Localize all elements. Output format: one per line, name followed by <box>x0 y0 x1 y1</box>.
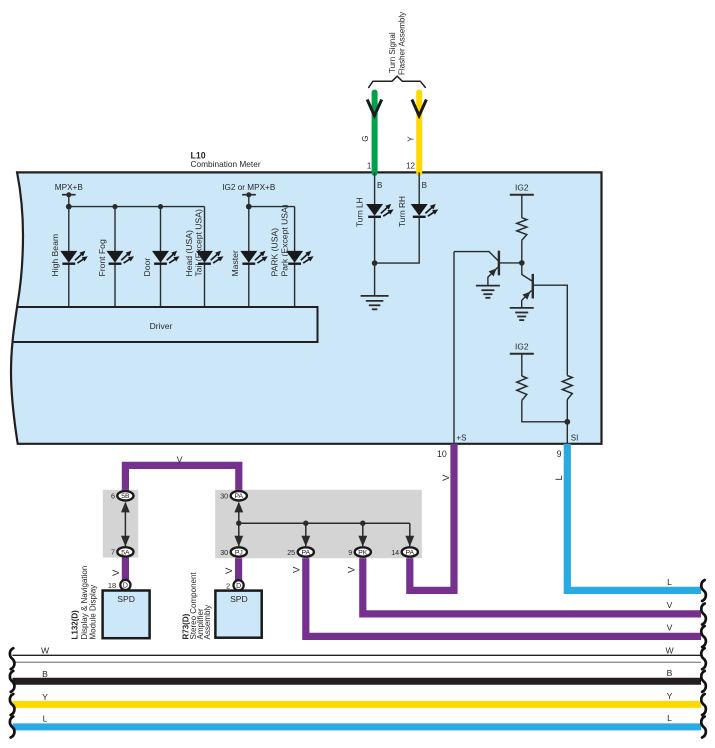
resistor R3 <box>562 376 572 400</box>
arrow drop to connector x=409.8 <box>409 523 411 546</box>
wire Y (yellow) <box>13 701 702 708</box>
wire break mark left L <box>10 717 15 738</box>
svg-text:Module Display: Module Display <box>88 585 97 640</box>
svg-text:PARK (USA): PARK (USA) <box>270 228 280 277</box>
junction dot turn <box>372 260 378 266</box>
svg-text:Assembly: Assembly <box>203 605 212 640</box>
LED D6 Park <box>286 251 314 264</box>
svg-text:IG2: IG2 <box>515 182 529 192</box>
wire LED branch x=68.8 <box>68 207 70 252</box>
wire R2 to SI node <box>522 401 568 422</box>
svg-text:7: 7 <box>111 548 115 557</box>
junction dot MPX+B bus <box>66 204 72 210</box>
wire +S vertical <box>453 252 455 444</box>
LED D2 Front Fog <box>107 251 135 264</box>
wire Y yellow from flasher <box>416 93 422 174</box>
wire turn RH <box>418 172 420 204</box>
wire break mark right L1 <box>701 580 706 601</box>
svg-text:Y: Y <box>406 136 415 142</box>
svg-text:12: 12 <box>406 162 415 171</box>
svg-text:Turn RH: Turn RH <box>397 196 407 227</box>
ground (Q1) <box>476 285 500 287</box>
svg-text:30: 30 <box>220 492 228 501</box>
connector PK pin9 <box>355 547 371 556</box>
wire break mark right V1 <box>701 604 706 625</box>
wire B (black) <box>13 678 702 685</box>
svg-text:Master: Master <box>230 250 240 276</box>
svg-text:1: 1 <box>367 162 372 171</box>
svg-text:18: 18 <box>108 581 116 590</box>
LED D5 Master <box>240 251 267 264</box>
SPD box (display module) <box>103 591 150 639</box>
wire break mark left B <box>10 671 15 692</box>
svg-text:Y: Y <box>42 692 48 702</box>
bus wire IG2 or MPX+B <box>249 206 295 208</box>
SPD box (amplifier) <box>215 591 261 638</box>
svg-text:L: L <box>667 577 672 587</box>
wire W (white) <box>13 654 702 656</box>
svg-text:Park (Except USA): Park (Except USA) <box>279 204 289 276</box>
svg-text:2: 2 <box>226 581 230 590</box>
connector PJ pin30 <box>231 547 247 556</box>
wire L (blue) <box>13 723 702 730</box>
svg-text:SI: SI <box>571 433 579 442</box>
wire V purple: 5B to PA30 link <box>125 465 238 494</box>
svg-text:+S: +S <box>456 433 466 442</box>
svg-text:25: 25 <box>287 548 295 557</box>
resistor R2 <box>517 376 527 401</box>
arrow link PA30-PJ <box>238 503 240 546</box>
resistor R1 <box>517 218 527 241</box>
svg-text:PK: PK <box>358 549 368 556</box>
ground (Q2) <box>510 307 534 309</box>
svg-text:Driver: Driver <box>150 321 173 331</box>
svg-text:V: V <box>292 566 303 573</box>
svg-text:PA: PA <box>302 549 311 556</box>
wire turn LH lower <box>374 217 376 296</box>
LED D1 High Beam <box>60 251 88 264</box>
wire turn LH <box>374 172 376 204</box>
svg-text:IG2 or MPX+B: IG2 or MPX+B <box>222 183 276 192</box>
wire R1 to node <box>521 240 523 263</box>
svg-text:9: 9 <box>557 449 562 459</box>
svg-text:L: L <box>554 475 565 481</box>
transistor Q2 <box>522 263 568 376</box>
svg-text:Door: Door <box>142 258 152 277</box>
svg-text:PJ: PJ <box>235 549 243 556</box>
wire IG2 to R2 <box>521 354 523 376</box>
LED Turn LH <box>366 204 394 217</box>
LED D3 Door <box>152 251 180 264</box>
junction dot <box>360 521 365 526</box>
svg-text:Flasher Assembly: Flasher Assembly <box>398 12 407 75</box>
svg-text:9: 9 <box>348 548 352 557</box>
wire break mark left W <box>10 648 15 669</box>
wire LED branch x=294.6 <box>294 207 296 252</box>
arrow link 5B-5A <box>124 503 126 546</box>
connector PA pin25 <box>298 547 314 556</box>
svg-text:SPD: SPD <box>230 594 248 604</box>
svg-text:Y: Y <box>667 691 673 701</box>
LED Turn RH <box>411 204 439 217</box>
svg-text:PA: PA <box>235 493 244 500</box>
svg-text:V: V <box>224 567 235 574</box>
bus wire MPX+B <box>69 206 205 208</box>
svg-text:V: V <box>347 566 358 573</box>
connector D pin18 <box>120 580 130 590</box>
svg-text:PA: PA <box>406 549 415 556</box>
junction block (gray) small <box>103 490 138 558</box>
wire V purple PA14 to +S pin 10 <box>410 444 454 591</box>
svg-text:V: V <box>667 600 673 610</box>
svg-text:MPX+B: MPX+B <box>55 183 84 192</box>
svg-text:V: V <box>441 474 452 481</box>
svg-text:V: V <box>177 454 183 464</box>
svg-text:V: V <box>111 569 122 576</box>
arrow drop to connector x=362.8 <box>362 523 364 546</box>
svg-text:Head (USA): Head (USA) <box>184 230 194 276</box>
wire break mark left Y <box>10 694 15 715</box>
svg-text:10: 10 <box>437 449 447 459</box>
connector arrow on green wire <box>367 100 382 116</box>
wire LED branch x=160.5 <box>160 207 162 252</box>
junction node SI <box>564 419 570 425</box>
wire purple into 5B <box>122 490 129 494</box>
wire V purple stub 5A to D <box>122 553 129 582</box>
wire break mark right L <box>701 717 706 738</box>
wire LED branch x=115.0 <box>114 207 116 252</box>
svg-text:W: W <box>665 646 674 656</box>
svg-text:L: L <box>43 714 48 724</box>
wire V purple stub PJ to D <box>235 553 242 583</box>
svg-text:B: B <box>377 181 382 190</box>
wire break mark right V2 <box>701 626 706 647</box>
brace for flasher assembly <box>369 76 426 87</box>
svg-text:30: 30 <box>220 548 228 557</box>
svg-text:5B: 5B <box>121 493 130 500</box>
svg-text:B: B <box>42 669 48 679</box>
svg-text:5A: 5A <box>121 549 130 556</box>
svg-text:6: 6 <box>111 492 115 501</box>
svg-text:SPD: SPD <box>117 594 135 604</box>
svg-text:14: 14 <box>391 548 399 557</box>
connector 5B pin6 <box>117 491 133 500</box>
svg-text:D: D <box>123 583 128 590</box>
wire V purple PA25 to right edge <box>306 556 701 636</box>
connector PA pin30 <box>231 491 247 500</box>
connector D pin2 <box>234 580 244 590</box>
transistor Q1 <box>454 251 522 286</box>
wire purple into PA30 <box>235 490 242 494</box>
svg-text:Front Fog: Front Fog <box>97 239 107 276</box>
combination meter L10 box <box>11 172 602 443</box>
junction node Q1 base <box>519 260 525 266</box>
svg-text:B: B <box>667 668 673 678</box>
wire V purple PK to right edge <box>363 556 701 614</box>
ground (turn LEDs) <box>361 295 389 297</box>
junction dot <box>112 204 117 209</box>
svg-text:Turn LH: Turn LH <box>354 197 364 227</box>
svg-text:W: W <box>41 646 50 656</box>
wire turn RH lower with elbow <box>375 217 420 263</box>
svg-text:Tail (Except USA): Tail (Except USA) <box>194 209 204 276</box>
wire R3 to SI node <box>566 400 568 422</box>
wire L cyan SI to right edge <box>567 444 701 591</box>
arrow drop to connector x=305.8 <box>305 523 307 546</box>
connector PA pin14 <box>402 547 418 556</box>
wire LED branch x=248.8 <box>248 207 250 252</box>
junction block (gray) large <box>215 490 422 558</box>
svg-text:L132(D): L132(D) <box>71 610 80 640</box>
svg-text:IG2: IG2 <box>515 341 529 351</box>
svg-text:L: L <box>667 713 672 723</box>
LED D4 Head/Tail <box>196 251 224 264</box>
connector arrow on yellow wire <box>412 100 427 116</box>
svg-text:Turn Signal: Turn Signal <box>388 32 397 73</box>
wire break mark right Y <box>701 694 706 715</box>
svg-text:High Beam: High Beam <box>50 234 60 277</box>
junction dot <box>158 204 163 209</box>
wire LED branch x=204.5 <box>204 207 206 252</box>
junction dot <box>236 521 241 526</box>
wire break mark right W <box>701 648 706 669</box>
svg-text:D: D <box>236 583 241 590</box>
connector 5A pin7 <box>117 547 133 556</box>
driver box <box>16 306 317 308</box>
wire break mark right B <box>701 671 706 692</box>
svg-text:B: B <box>422 181 427 190</box>
junction dot IG2 bus <box>246 204 252 210</box>
wire SI to pin <box>566 422 568 444</box>
svg-text:V: V <box>667 622 673 632</box>
wire G green from flasher <box>372 93 378 174</box>
svg-text:G: G <box>361 136 370 142</box>
junction dot <box>303 521 308 526</box>
wire inner distribution <box>239 522 410 524</box>
wire IG2 to resistor <box>521 195 523 218</box>
svg-text:Combination Meter: Combination Meter <box>191 159 261 169</box>
